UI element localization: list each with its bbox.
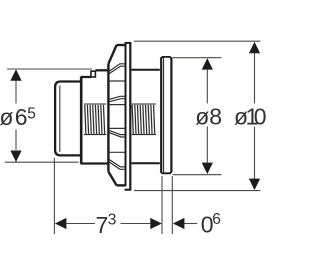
svg-text:6: 6	[15, 104, 28, 130]
svg-text:ø: ø	[195, 104, 209, 130]
svg-text:6: 6	[212, 211, 221, 228]
svg-text:0: 0	[254, 104, 267, 130]
svg-text:ø: ø	[0, 104, 13, 130]
svg-text:5: 5	[27, 105, 36, 122]
svg-text:3: 3	[108, 211, 117, 228]
svg-text:7: 7	[96, 212, 109, 238]
svg-text:8: 8	[209, 104, 222, 130]
